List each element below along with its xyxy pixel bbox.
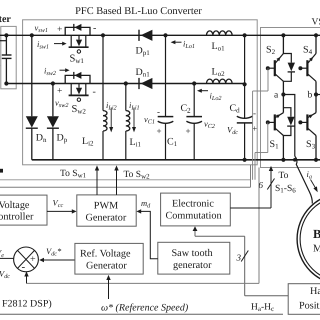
node Dn-top xyxy=(30,33,34,37)
svg-text:3: 3 xyxy=(236,253,242,263)
wire: left input rail xyxy=(5,35,7,55)
hall sensor box xyxy=(288,284,320,315)
capacitor Cd xyxy=(244,35,246,118)
node S1-bot xyxy=(281,158,285,162)
mosfet Sw1 channel xyxy=(70,35,72,46)
svg-text:-: - xyxy=(157,107,160,117)
wire: top bus (wire1) xyxy=(0,34,320,36)
wire phase b stub xyxy=(316,94,320,96)
capacitor C1 xyxy=(165,35,167,116)
mosfet Sw2 channel xyxy=(70,84,72,95)
wire sense tap to converter xyxy=(250,165,252,188)
wire: filter stub xyxy=(0,40,6,42)
wire Vdc into summing xyxy=(26,276,28,284)
svg-text:Motor: Motor xyxy=(313,244,320,255)
svg-text:-: - xyxy=(22,261,26,273)
wire Vdc* arrow xyxy=(43,259,75,261)
svg-text:-: - xyxy=(253,108,256,118)
diode Dp1 xyxy=(141,30,153,41)
wire S3 emitter to rail xyxy=(315,136,317,160)
wire Vdc feedback horizontal xyxy=(27,282,260,284)
block Voltage Controller xyxy=(0,195,47,225)
node Cd-bot xyxy=(243,158,247,162)
block Electronic Commutation xyxy=(161,193,231,226)
node S3-bot xyxy=(314,158,318,162)
svg-text:-: - xyxy=(93,23,96,34)
block Saw tooth generator xyxy=(158,242,230,274)
svg-text:Electronic: Electronic xyxy=(172,199,214,210)
current iLo2 arrow xyxy=(197,89,202,93)
wire Vcc arrow xyxy=(47,210,73,212)
current iLo1 arrow xyxy=(171,40,176,44)
node Dp-top xyxy=(51,81,55,85)
diode DS2 (antiparallel) xyxy=(283,54,291,82)
node Lo2-Cd xyxy=(243,82,247,86)
gate wire S1 xyxy=(267,122,269,152)
node in+ xyxy=(4,33,8,37)
bold mark at left edge xyxy=(0,169,3,173)
node S4-top xyxy=(314,33,318,37)
node S2-top xyxy=(281,33,285,37)
svg-text:6: 6 xyxy=(259,180,264,190)
transistor S1 xyxy=(282,95,284,113)
wire hall signals xyxy=(245,295,289,297)
DSP box bottom line xyxy=(0,313,283,315)
filter box (cropped at left) xyxy=(1,26,16,88)
wire md to PWM xyxy=(141,211,158,258)
node b xyxy=(314,92,318,96)
svg-text:Ref. Voltage: Ref. Voltage xyxy=(80,249,131,260)
wire To Sw1 arrow xyxy=(96,170,98,195)
wire Ve output xyxy=(0,257,14,259)
node Cd-top xyxy=(243,33,247,37)
transistor S4 xyxy=(315,35,317,53)
svg-text:Generator: Generator xyxy=(86,261,127,272)
converter gray box xyxy=(23,20,258,165)
mosfet Sw2 body-diode branch xyxy=(65,75,90,83)
svg-text:(eZdsp F2812 DSP): (eZdsp F2812 DSP) xyxy=(0,299,52,310)
VSI gray box xyxy=(261,28,320,168)
inductor Li1 xyxy=(125,84,127,111)
svg-text:BLDC: BLDC xyxy=(313,227,320,241)
diode body Sw1 xyxy=(74,24,81,31)
node C2-top xyxy=(192,81,196,85)
svg-text:To Sw1: To Sw1 xyxy=(60,169,87,180)
wire S4 emitter to node b xyxy=(315,81,317,94)
svg-text:generator: generator xyxy=(173,260,212,271)
motor BLDC (double circle, cropped) xyxy=(297,193,320,284)
wire S1 emitter to rail xyxy=(282,136,284,160)
diode DS1 (antiparallel) xyxy=(283,108,291,136)
transistor S2 xyxy=(282,35,284,53)
svg-text:+: + xyxy=(30,254,36,265)
svg-text:To: To xyxy=(279,171,289,181)
wire sense line Lb xyxy=(0,186,251,188)
svg-text:+: + xyxy=(186,126,191,136)
svg-text:To Sw2: To Sw2 xyxy=(124,170,151,181)
svg-text:ω* (Reference Speed): ω* (Reference Speed) xyxy=(101,303,189,314)
wire sense line La xyxy=(0,179,251,181)
inductor Li2 xyxy=(102,35,104,110)
svg-text:Controller: Controller xyxy=(0,212,34,223)
svg-text:Filter: Filter xyxy=(0,14,11,25)
svg-text:PWM: PWM xyxy=(94,201,118,212)
wire 6 gate signals xyxy=(230,207,271,209)
mosfet Sw1 body-diode branch xyxy=(65,27,90,35)
node C1-top xyxy=(163,33,167,37)
node in- xyxy=(4,81,8,85)
wire: second bus (wire2) xyxy=(6,83,244,85)
node Li1-top xyxy=(124,81,128,85)
node Li2-top xyxy=(101,33,105,37)
svg-text:Generator: Generator xyxy=(86,213,127,224)
wire phase a xyxy=(283,95,294,157)
label 6 slash xyxy=(267,179,274,190)
diode body Sw2 xyxy=(74,72,81,79)
capacitor Cf (filter, cropped) xyxy=(2,54,12,56)
svg-text:b: b xyxy=(308,91,313,101)
svg-text:+: + xyxy=(57,87,62,97)
summing junction xyxy=(14,247,39,272)
diode Dn xyxy=(31,35,33,116)
wire S2 emitter to node a xyxy=(282,81,284,94)
svg-text:Hall: Hall xyxy=(310,286,320,297)
svg-text:Saw tooth: Saw tooth xyxy=(172,248,213,259)
wire To Sw2 arrow xyxy=(116,170,118,195)
svg-text:Position: Position xyxy=(299,301,320,312)
node phase-a rail crossing xyxy=(293,158,297,162)
svg-text:Commutation: Commutation xyxy=(166,211,222,222)
gate wire S2 xyxy=(267,68,269,91)
svg-text:-: - xyxy=(93,87,96,98)
svg-text:Voltage: Voltage xyxy=(0,200,30,211)
block Ref Voltage Generator xyxy=(75,243,143,274)
block PWM Generator xyxy=(77,195,136,226)
transistor S3 xyxy=(315,95,317,113)
inductor Lo1 xyxy=(207,31,233,35)
inductor Lo2 xyxy=(207,79,233,83)
capacitor C2 xyxy=(193,84,195,117)
svg-text:+: + xyxy=(57,25,62,35)
label 3 wires slash xyxy=(241,251,248,262)
wire Vdc feedback vertical xyxy=(258,168,260,284)
svg-text:+: + xyxy=(157,126,162,136)
diode Dp xyxy=(52,84,54,117)
svg-text:S1-S6: S1-S6 xyxy=(275,184,296,195)
wire: bottom rail xyxy=(32,159,320,161)
svg-text:VS: VS xyxy=(312,18,320,28)
svg-text:PFC Based BL-Luo Converter: PFC Based BL-Luo Converter xyxy=(75,6,202,17)
diode Dn1 xyxy=(141,78,153,89)
node a xyxy=(281,92,285,96)
svg-text:Ha-Hc: Ha-Hc xyxy=(251,303,274,314)
wire omega* arrow xyxy=(108,279,110,299)
